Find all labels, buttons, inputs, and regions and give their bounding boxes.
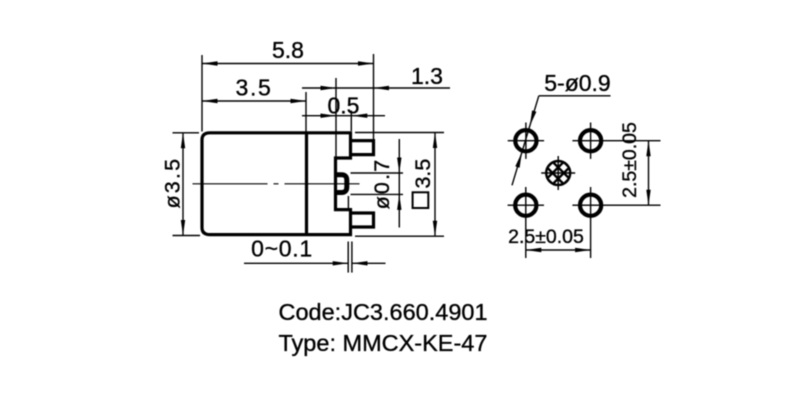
centerline (dash-dot) [193, 183, 362, 185]
bottom mounting pin [351, 213, 374, 227]
extension line step edge [335, 78, 337, 157]
svg-text:ø3.5: ø3.5 [160, 157, 184, 209]
svg-text:0~0.1: 0~0.1 [251, 236, 313, 262]
body inner vertical line [305, 133, 308, 235]
mounting hole bottom-right [580, 195, 601, 216]
extension line pin tip [373, 54, 375, 139]
square symbol [413, 192, 429, 208]
extension line body left [201, 55, 203, 132]
mounting hole bottom-left [515, 195, 536, 216]
svg-text:5.8: 5.8 [272, 37, 304, 63]
dimension 1.3 [302, 87, 450, 89]
top mounting pin [351, 141, 374, 155]
svg-text:3.5: 3.5 [235, 75, 272, 101]
extension line inner edge [305, 92, 307, 132]
extension line bump tip face [347, 196, 349, 209]
dimension 5.8 [202, 63, 374, 65]
connector body outline (side view) [202, 133, 374, 235]
dimension 2.5 +/-0.05 vertical [648, 141, 650, 206]
dimension diameter 0.7 [351, 172, 404, 174]
svg-text:0.5: 0.5 [328, 93, 360, 119]
svg-text:Code:JC3.660.4901: Code:JC3.660.4901 [279, 299, 488, 325]
svg-text:ø0.7: ø0.7 [370, 158, 394, 210]
dimension 3.5 top [202, 100, 306, 102]
dimension 0.5 [302, 115, 385, 117]
dimension square 3.5 right [355, 132, 444, 134]
center hole hatched [546, 161, 570, 185]
dimension 0~0.1 bottom [347, 242, 349, 273]
mounting hole top-left [515, 130, 536, 151]
svg-text:2.5±0.05: 2.5±0.05 [619, 122, 641, 198]
svg-text:3.5: 3.5 [411, 159, 435, 189]
dimension diameter 3.5 left [173, 132, 200, 134]
extension line body right edge [350, 111, 352, 132]
svg-text:Type: MMCX-KE-47: Type: MMCX-KE-47 [279, 330, 488, 356]
svg-text:2.5±0.05: 2.5±0.05 [508, 226, 584, 248]
mounting hole top-right [580, 130, 601, 151]
svg-text:1.3: 1.3 [411, 63, 443, 89]
center contact bump [336, 175, 347, 193]
dimension 2.5 +/-0.05 horizontal [526, 249, 591, 251]
svg-text:5-ø0.9: 5-ø0.9 [544, 70, 610, 96]
